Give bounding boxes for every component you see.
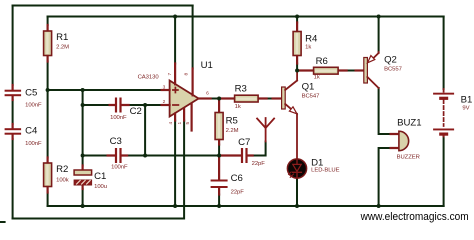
node junction x82-pin3: [81, 88, 85, 92]
label R2: [56, 164, 69, 183]
battery B1: [433, 89, 454, 137]
label BUZ1: [397, 118, 422, 161]
svg-text:1k: 1k: [314, 75, 320, 81]
label C4: [25, 126, 42, 148]
label U1: [138, 60, 213, 81]
capacitor C4: [5, 124, 22, 139]
resistor R6: [297, 67, 347, 74]
wire op-amp pin4 to ground: [174, 121, 176, 207]
node junction output-R5: [217, 97, 221, 101]
label R3: [235, 84, 247, 111]
antenna: [257, 118, 274, 142]
resistor R3: [219, 95, 267, 102]
svg-text:C1: C1: [94, 171, 106, 182]
resistor R1: [44, 25, 52, 62]
wire outer bottom to op-amp pin1: [13, 121, 185, 219]
svg-text:Q1: Q1: [302, 81, 315, 92]
svg-text:C2: C2: [130, 106, 142, 117]
svg-text:1: 1: [177, 122, 183, 125]
wire inner top V+ rail: [48, 16, 444, 18]
label C3: [110, 136, 128, 171]
resistor R2: [44, 158, 52, 193]
svg-text:4: 4: [168, 122, 174, 125]
svg-text:7: 7: [167, 73, 173, 76]
svg-text:Q2: Q2: [384, 55, 397, 66]
svg-text:9V: 9V: [462, 105, 469, 111]
LED D1: [287, 159, 306, 178]
label Q2: [384, 55, 402, 73]
svg-text:BC557: BC557: [384, 67, 402, 73]
node junction rail-R4: [295, 15, 299, 19]
node junction x82-pin2: [81, 103, 85, 107]
op-amp U1 pin 4 stub: [174, 114, 176, 121]
label Q1: [302, 81, 320, 99]
resistor R5: [215, 99, 223, 145]
svg-text:100nF: 100nF: [110, 115, 127, 121]
wire left margin tick: [1, 221, 5, 223]
wire op-amp pin7 from rail: [174, 17, 176, 64]
label C2: [110, 106, 142, 121]
svg-text:22pF: 22pF: [252, 161, 266, 167]
svg-text:C7: C7: [238, 137, 250, 148]
op-amp U1 pin 3 stub: [162, 89, 170, 91]
label R6: [314, 56, 328, 81]
svg-text:U1: U1: [201, 60, 213, 71]
svg-text:100nF: 100nF: [111, 165, 128, 171]
wire R1 column: [47, 17, 49, 158]
svg-text:LED-BLUE: LED-BLUE: [311, 168, 340, 174]
label R5: [226, 116, 239, 135]
wire LED cathode to ground: [296, 178, 298, 206]
svg-text:22pF: 22pF: [231, 190, 245, 196]
label C6: [231, 173, 245, 196]
svg-text:8: 8: [184, 73, 190, 76]
svg-text:C6: C6: [231, 173, 243, 184]
op-amp U1 pin 8 stub: [192, 69, 194, 96]
node junction ground-LED: [295, 204, 299, 208]
svg-text:B1: B1: [461, 94, 473, 105]
capacitor C7: [219, 148, 253, 163]
svg-text:100k: 100k: [56, 177, 69, 183]
wire node column x82: [82, 90, 84, 206]
label R4: [305, 34, 318, 51]
svg-text:R4: R4: [305, 34, 318, 45]
op-amp U1 pin 1 stub: [183, 109, 185, 121]
wire outer top rail: [13, 5, 193, 7]
wire pin8 drop from outer top: [192, 6, 194, 69]
node junction x82-C3: [81, 154, 85, 158]
svg-text:R1: R1: [56, 32, 68, 43]
svg-text:6: 6: [206, 91, 209, 97]
node junction ground-buzzer: [377, 204, 381, 208]
node junction drop-C3: [143, 154, 147, 158]
wire outer left side: [12, 6, 14, 219]
transistor Q1: [273, 71, 298, 160]
svg-text:C3: C3: [110, 136, 122, 147]
svg-text:BUZZER: BUZZER: [397, 155, 420, 161]
svg-text:R6: R6: [316, 56, 328, 67]
svg-text:BC547: BC547: [302, 94, 320, 100]
wire bottom ground rail: [48, 205, 444, 207]
node junction ground-pin4: [173, 204, 177, 208]
label C1: [94, 171, 107, 190]
svg-text:100nF: 100nF: [25, 141, 42, 147]
svg-text:C5: C5: [25, 88, 37, 99]
svg-text:100u: 100u: [94, 184, 107, 190]
op-amp U1: [170, 81, 199, 117]
wire R4 top: [296, 17, 298, 71]
node junction C2-drop: [143, 103, 147, 107]
capacitor C5: [5, 85, 22, 100]
node junction R5-C6: [217, 154, 221, 158]
wire Q2 collector to buzzer: [379, 88, 391, 134]
svg-text:C4: C4: [25, 126, 38, 137]
node junction ground-C6: [217, 204, 221, 208]
wire R2 bottom to ground rail: [47, 193, 49, 207]
op-amp U1 pin 7 stub: [174, 64, 176, 85]
wire R6 middle segment: [347, 70, 356, 72]
svg-text:BUZ1: BUZ1: [397, 118, 422, 129]
node junction R4-R6-Q1: [295, 69, 299, 73]
wire op-amp output segment: [211, 98, 273, 100]
svg-text:1k: 1k: [305, 45, 311, 51]
svg-text:5: 5: [185, 122, 191, 125]
op-amp U1 pin 5 stub: [191, 104, 193, 131]
svg-text:CA3130: CA3130: [138, 75, 160, 81]
svg-text:2.2M: 2.2M: [226, 128, 239, 134]
capacitor C6: [211, 156, 228, 195]
op-amp U1 pin 6 output stub: [199, 97, 211, 99]
label C7: [238, 137, 265, 167]
buzzer BUZ1: [391, 131, 409, 151]
op-amp U1 pin 2 stub: [162, 104, 170, 106]
svg-text:3: 3: [163, 85, 166, 91]
wire R5 C6 column: [218, 145, 220, 207]
wire op-amp pin2 input: [83, 104, 162, 106]
wire buzzer bottom to ground: [379, 148, 391, 206]
transistor Q2: [356, 52, 379, 88]
wire C3 net: [83, 142, 266, 156]
node junction rail-pin7: [173, 15, 177, 19]
label D1: [311, 158, 340, 174]
node junction rail-Q2 emitter: [377, 15, 381, 19]
capacitor C1 electrolytic: [74, 166, 92, 190]
resistor R4: [293, 23, 301, 64]
svg-text:R5: R5: [226, 116, 238, 127]
svg-text:2.2M: 2.2M: [56, 44, 69, 50]
label R1: [56, 32, 69, 50]
wire drop x144: [144, 105, 146, 156]
wire op-amp pin3 input: [48, 89, 162, 91]
wire battery column: [443, 17, 445, 207]
capacitor C3: [108, 148, 128, 163]
svg-text:R3: R3: [235, 84, 247, 95]
svg-text:100nF: 100nF: [25, 103, 42, 109]
svg-text:R2: R2: [56, 164, 68, 175]
label C5: [25, 88, 42, 109]
node junction ground-C1: [81, 204, 85, 208]
capacitor C2: [110, 98, 129, 113]
node junction R1-pin3: [46, 88, 50, 92]
wire Q2 emitter to rail: [378, 17, 380, 53]
svg-text:www.electromagics.com: www.electromagics.com: [360, 211, 469, 223]
svg-text:2: 2: [163, 99, 166, 105]
svg-text:1k: 1k: [235, 104, 241, 110]
label B1: [461, 94, 473, 111]
